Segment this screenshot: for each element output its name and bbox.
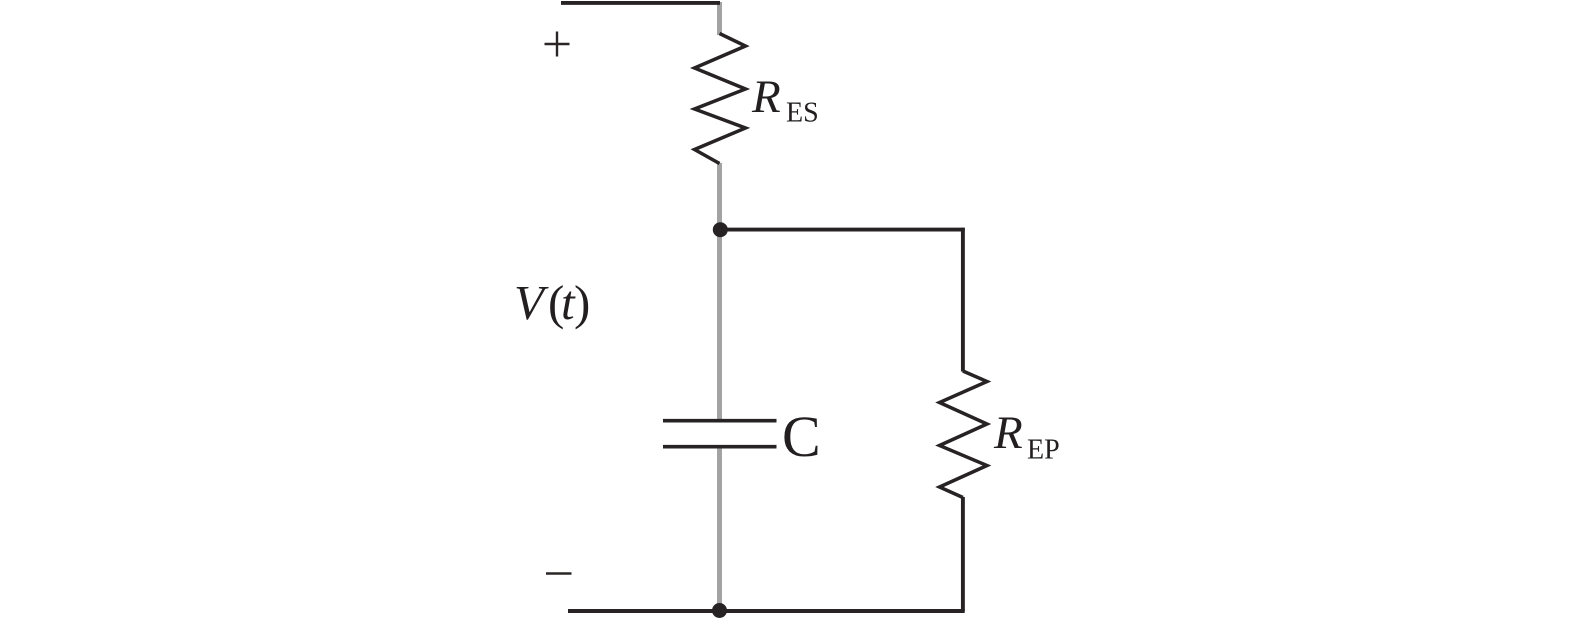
wire right branch upper vertical [961,228,965,372]
wire gray vertical middle segment (R_ES to capacitor top plate) [717,163,722,420]
wire gray vertical bottom segment (capacitor bottom plate to bottom wire) [717,448,722,611]
resistor R_EP zigzag [940,371,988,498]
svg-text:R: R [751,71,781,123]
wire gray vertical top segment (top wire to R_ES) [717,2,722,35]
plus terminal symbol [545,32,570,57]
svg-text:R: R [993,407,1023,459]
svg-text:ES: ES [786,98,819,129]
node junction dot lower [712,603,727,618]
svg-text:): ) [574,275,590,330]
svg-text:V: V [514,275,549,330]
node junction dot upper [713,222,728,237]
minus terminal symbol [546,572,572,575]
wire bottom horizontal [568,609,965,613]
resistor R_ES zigzag [695,34,746,164]
svg-text:EP: EP [1027,435,1060,466]
wire node to right branch [718,228,965,232]
wire top horizontal [561,1,720,5]
wire right branch lower vertical [961,497,965,611]
capacitor C bottom plate [663,445,777,449]
svg-text:C: C [782,404,821,469]
capacitor C top plate [663,419,777,423]
